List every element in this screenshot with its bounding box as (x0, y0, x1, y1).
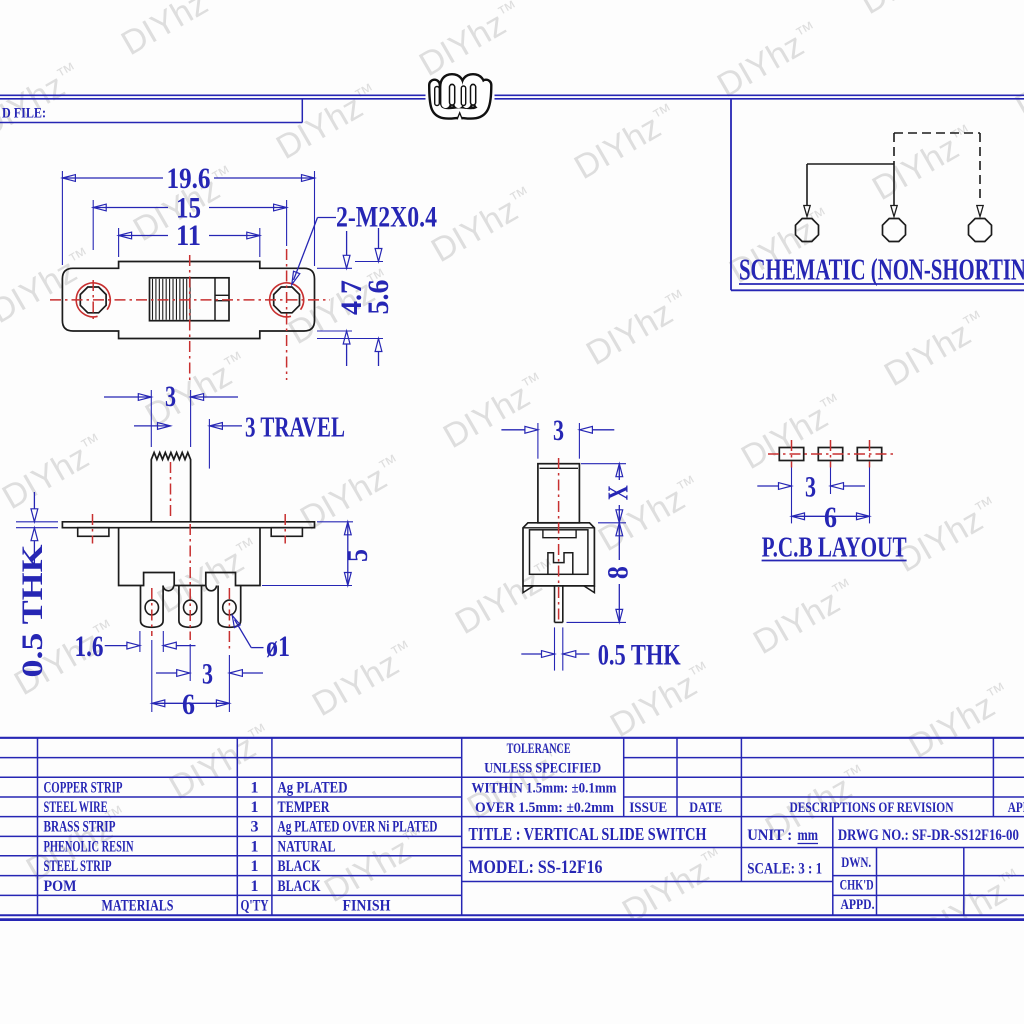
svg-text:3: 3 (805, 471, 816, 504)
svg-text:0.5 THK: 0.5 THK (16, 544, 49, 678)
svg-text:Ag PLATED: Ag PLATED (278, 779, 348, 796)
svg-text:TEMPER: TEMPER (278, 799, 330, 816)
svg-text:DIYhz™: DIYhz™ (902, 677, 1019, 766)
svg-text:3: 3 (165, 380, 176, 413)
svg-text:SCHEMATIC (NON-SHORTING): SCHEMATIC (NON-SHORTING) (739, 252, 1024, 287)
svg-text:DIYhz™: DIYhz™ (413, 0, 530, 84)
svg-text:1: 1 (251, 779, 259, 796)
svg-text:TITLE : VERTICAL SLIDE SWITCH: TITLE : VERTICAL SLIDE SWITCH (469, 824, 707, 844)
svg-text:DIYhz™: DIYhz™ (0, 242, 101, 331)
svg-text:DIYhz™: DIYhz™ (890, 491, 1007, 580)
svg-text:APPD.: APPD. (841, 897, 875, 913)
svg-text:BLACK: BLACK (278, 858, 321, 875)
svg-text:DATE: DATE (689, 800, 722, 816)
svg-text:DIYhz™: DIYhz™ (306, 635, 423, 724)
svg-text:WITHIN 1.5mm: ±0.1mm: WITHIN 1.5mm: ±0.1mm (472, 780, 617, 796)
svg-text:0.5 THK: 0.5 THK (598, 639, 681, 672)
svg-text:DIYhz™: DIYhz™ (568, 98, 685, 187)
svg-text:NATURAL: NATURAL (278, 838, 336, 855)
svg-text:DESCRIPTIONS OF REVISION: DESCRIPTIONS OF REVISION (790, 800, 954, 816)
svg-text:DRWG NO.: SF-DR-SS12F16-00: DRWG NO.: SF-DR-SS12F16-00 (838, 827, 1019, 844)
svg-text:ø1: ø1 (266, 630, 290, 663)
svg-text:5: 5 (341, 549, 374, 562)
svg-text:Ag PLATED OVER Ni PLATED: Ag PLATED OVER Ni PLATED (278, 819, 438, 836)
svg-text:11: 11 (176, 219, 201, 252)
svg-text:5.6: 5.6 (362, 280, 395, 315)
svg-text:DIYhz™: DIYhz™ (163, 718, 280, 807)
svg-text:2-M2X0.4: 2-M2X0.4 (336, 201, 437, 234)
svg-text:OVER 1.5mm: ±0.2mm: OVER 1.5mm: ±0.2mm (475, 800, 614, 816)
svg-text:DIYhz™: DIYhz™ (294, 449, 411, 538)
svg-text:19.6: 19.6 (167, 162, 211, 195)
svg-text:6: 6 (182, 688, 195, 721)
svg-text:DIYhz™: DIYhz™ (556, 0, 673, 1)
svg-text:DIYhz™: DIYhz™ (1009, 37, 1024, 126)
svg-text:BRASS STRIP: BRASS STRIP (44, 819, 116, 836)
svg-text:DWN.: DWN. (841, 855, 871, 871)
svg-text:DIYhz™: DIYhz™ (592, 470, 709, 559)
svg-text:6: 6 (824, 501, 837, 534)
svg-text:DIYhz™: DIYhz™ (580, 284, 697, 373)
svg-text:ISSUE: ISSUE (629, 800, 667, 816)
svg-text:1: 1 (251, 799, 259, 816)
svg-text:STEEL WIRE: STEEL WIRE (44, 799, 108, 816)
svg-text:APPD: APPD (1008, 800, 1024, 816)
svg-text:3: 3 (251, 819, 259, 836)
svg-text:MODEL: SS-12F16: MODEL: SS-12F16 (469, 857, 603, 878)
svg-text:POM: POM (44, 878, 77, 895)
svg-text:DIYhz™: DIYhz™ (878, 305, 995, 394)
svg-text:8: 8 (602, 566, 635, 579)
svg-text:DIYhz™: DIYhz™ (735, 388, 852, 477)
svg-text:1.6: 1.6 (75, 630, 104, 663)
svg-text:DIYhz™: DIYhz™ (0, 57, 89, 146)
svg-text:D FILE:: D FILE: (2, 106, 46, 122)
svg-text:DIYhz™: DIYhz™ (437, 367, 554, 456)
svg-text:UNLESS SPECIFIED: UNLESS SPECIFIED (484, 761, 601, 777)
svg-text:DIYhz™: DIYhz™ (139, 346, 256, 435)
svg-text:3 TRAVEL: 3 TRAVEL (245, 412, 345, 443)
svg-text:TOLERANCE: TOLERANCE (507, 741, 571, 757)
svg-text:mm: mm (798, 827, 819, 844)
svg-text:X: X (604, 485, 635, 500)
svg-text:1: 1 (251, 858, 259, 875)
svg-text:PHENOLIC RESIN: PHENOLIC RESIN (44, 838, 134, 855)
svg-text:UNIT :: UNIT : (747, 827, 792, 844)
svg-text:STEEL STRIP: STEEL STRIP (44, 858, 112, 875)
svg-text:DIYhz™: DIYhz™ (854, 0, 971, 22)
svg-text:DIYhz™: DIYhz™ (425, 181, 542, 270)
svg-text:1: 1 (251, 838, 259, 855)
svg-text:DIYhz™: DIYhz™ (151, 532, 268, 621)
svg-text:P.C.B LAYOUT: P.C.B LAYOUT (762, 533, 907, 564)
svg-text:Q'TY: Q'TY (241, 898, 269, 915)
svg-text:DIYhz™: DIYhz™ (616, 842, 733, 931)
svg-text:FINISH: FINISH (343, 898, 391, 915)
svg-text:DIYhz™: DIYhz™ (747, 573, 864, 662)
svg-text:1: 1 (251, 878, 259, 895)
svg-text:DIYhz™: DIYhz™ (711, 16, 828, 105)
svg-text:MATERIALS: MATERIALS (102, 898, 174, 915)
svg-text:COPPER STRIP: COPPER STRIP (44, 779, 123, 796)
svg-text:CHK'D: CHK'D (840, 878, 874, 894)
svg-text:BLACK: BLACK (278, 878, 321, 895)
svg-text:3: 3 (553, 414, 564, 447)
svg-text:DIYhz™: DIYhz™ (0, 428, 113, 517)
svg-text:SCALE: 3 : 1: SCALE: 3 : 1 (747, 861, 822, 878)
svg-text:DIYhz™: DIYhz™ (115, 0, 232, 63)
svg-text:3: 3 (202, 658, 213, 691)
